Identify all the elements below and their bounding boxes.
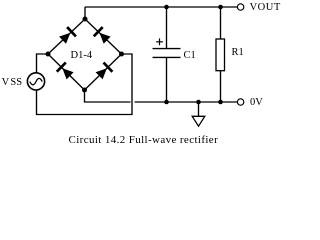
- diode D2 top-right: [85, 19, 122, 54]
- node left of bridge: [46, 52, 51, 57]
- wire bridge bottom stub: [85, 90, 131, 102]
- ground: [192, 102, 205, 126]
- capacitor C1: [153, 38, 181, 57]
- diode D4 bottom-right: [85, 54, 122, 90]
- label 0V: [250, 98, 263, 108]
- wire top stub from bridge top node: [84, 7, 86, 19]
- resistor R1: [216, 39, 225, 71]
- node top of bridge: [83, 17, 88, 22]
- caption Circuit 14.2 Full-wave rectifier: [69, 135, 219, 145]
- terminal 0V: [237, 99, 243, 105]
- wire VSS bottom to lower loop: [37, 54, 133, 115]
- label VSS: [2, 78, 22, 88]
- AC source VSS: [27, 73, 44, 90]
- wire capacitor branch top: [166, 7, 168, 49]
- wire capacitor branch bottom: [166, 57, 168, 102]
- wire 0V rail (after hop): [135, 101, 238, 103]
- junction C1 bottom: [164, 100, 169, 105]
- junction R1 top: [218, 5, 223, 10]
- wire top rail VOUT: [85, 6, 237, 8]
- label D1-4: [71, 51, 93, 61]
- node bottom of bridge: [82, 88, 87, 93]
- diode D3 bottom-left: [48, 54, 85, 90]
- wire resistor branch bottom: [220, 71, 222, 102]
- junction ground: [196, 100, 201, 105]
- label VOUT: [250, 3, 281, 13]
- label R1: [232, 48, 244, 58]
- diode D1 top-left: [48, 19, 85, 54]
- terminal VOUT: [237, 4, 243, 10]
- label C1: [184, 51, 196, 61]
- node right of bridge: [119, 52, 124, 57]
- junction C1 top: [164, 5, 169, 10]
- junction R1 bottom: [218, 100, 223, 105]
- wire resistor branch top: [220, 7, 222, 39]
- wire left node to VSS: [37, 54, 49, 72]
